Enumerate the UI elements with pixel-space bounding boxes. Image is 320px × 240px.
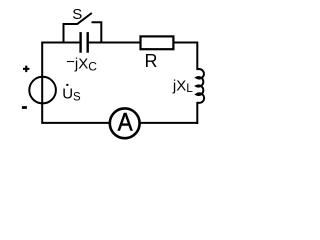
svg-text:jXL: jXL bbox=[172, 78, 193, 95]
label plus vertical bar bbox=[25, 66, 27, 73]
switch right contact and leg bbox=[92, 22, 102, 43]
wire top-left segment bbox=[42, 42, 79, 44]
ammeter A circle bbox=[110, 108, 140, 138]
capacitor C left plate bbox=[79, 32, 81, 53]
switch S branch left leg bbox=[64, 24, 78, 43]
label U dot accent bbox=[66, 84, 68, 86]
wire between capacitor and resistor bbox=[89, 42, 141, 44]
svg-text:A: A bbox=[118, 109, 133, 137]
inductor L coil bbox=[196, 69, 204, 103]
label plus horizontal bar bbox=[23, 68, 29, 70]
svg-text:S: S bbox=[72, 6, 82, 23]
wire left upper segment bbox=[41, 42, 43, 91]
wire bottom-right segment bbox=[140, 122, 197, 124]
capacitor C right plate bbox=[86, 32, 88, 53]
svg-text:R: R bbox=[145, 51, 158, 71]
wire bottom-left segment bbox=[42, 90, 109, 123]
svg-text:−: − bbox=[66, 54, 75, 71]
voltage source line through bbox=[41, 77, 43, 104]
resistor R body bbox=[141, 36, 174, 49]
label minus bar bbox=[22, 106, 27, 109]
wire resistor to top-right corner bbox=[173, 43, 197, 71]
voltage source U1 circle bbox=[29, 77, 56, 104]
switch blade bbox=[77, 13, 92, 24]
wire right below inductor bbox=[196, 102, 198, 124]
